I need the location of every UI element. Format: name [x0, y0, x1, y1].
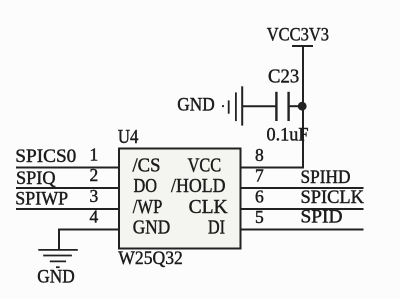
ground symbol bottom-left: [38, 250, 78, 267]
svg-text:7: 7: [255, 166, 264, 186]
svg-text:C23: C23: [268, 67, 299, 88]
wire pin 6 SPICLK: [242, 208, 364, 210]
junction dot on VCC3V3 net: [298, 102, 307, 111]
svg-text:/HOLD: /HOLD: [171, 175, 226, 197]
svg-text:SPICS0: SPICS0: [15, 147, 76, 167]
svg-text:/CS: /CS: [133, 155, 161, 177]
svg-text:1: 1: [90, 145, 99, 165]
svg-text:/WP: /WP: [133, 196, 163, 218]
svg-text:U4: U4: [118, 126, 138, 148]
svg-text:CLK: CLK: [189, 196, 229, 218]
svg-text:5: 5: [255, 207, 264, 227]
wire pin 8 to VCC3V3: [242, 46, 304, 168]
svg-text:DO: DO: [134, 175, 158, 197]
svg-text:0.1uF: 0.1uF: [267, 125, 309, 146]
svg-text:3: 3: [90, 186, 99, 206]
svg-text:GND: GND: [177, 96, 215, 116]
svg-text:DI: DI: [208, 217, 225, 239]
svg-text:VCC: VCC: [188, 155, 222, 177]
wire capacitor left to ground symbol: [243, 105, 276, 107]
wire pin 4 to ground: [59, 230, 118, 250]
svg-text:VCC3V3: VCC3V3: [267, 25, 329, 46]
svg-text:2: 2: [90, 165, 99, 185]
svg-text:GND: GND: [37, 268, 75, 288]
wire SPIWP to pin 3: [16, 208, 118, 210]
wire pin 5 SPID: [242, 229, 364, 231]
svg-text:SPICLK: SPICLK: [301, 188, 365, 208]
svg-text:SPID: SPID: [301, 208, 343, 228]
ground symbol (sideways) at capacitor: [223, 86, 242, 125]
svg-text:4: 4: [90, 207, 99, 227]
svg-text:GND: GND: [133, 217, 170, 239]
wire capacitor right to VCC net: [290, 105, 304, 107]
svg-text:SPIWP: SPIWP: [15, 190, 68, 210]
IC U4 W25Q32 body: [119, 149, 241, 249]
svg-text:W25Q32: W25Q32: [118, 248, 183, 269]
svg-text:6: 6: [255, 187, 264, 207]
power symbol VCC3V3 bar: [292, 45, 313, 47]
svg-text:8: 8: [255, 145, 264, 165]
svg-text:SPIHD: SPIHD: [301, 168, 351, 188]
wire SPICS0 to pin 1: [16, 167, 118, 169]
capacitor C23 plates: [276, 92, 288, 121]
wire pin 7 SPIHD: [242, 187, 364, 189]
wire SPIQ to pin 2: [16, 187, 118, 189]
svg-text:SPIQ: SPIQ: [16, 169, 56, 189]
